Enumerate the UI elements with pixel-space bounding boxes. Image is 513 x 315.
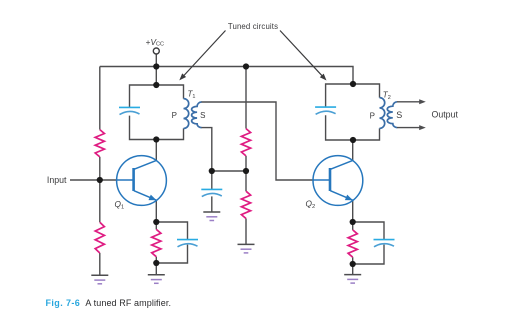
label Q2 — [306, 198, 316, 210]
label S of T1 — [200, 111, 205, 120]
svg-text:Output: Output — [432, 110, 459, 120]
resistor left lower — [95, 222, 104, 253]
capacitor tank 2 — [315, 107, 336, 114]
wire Vcc rail — [100, 67, 353, 85]
node input-base — [97, 177, 103, 183]
resistor Q2 emitter — [348, 230, 357, 257]
node Q2 emitter top — [350, 219, 356, 225]
ground left column — [91, 275, 108, 284]
wire middle column upper — [245, 67, 247, 129]
label Tuned circuits — [228, 22, 278, 31]
node rail-middle — [243, 63, 249, 69]
wire tank 2 loop — [326, 84, 380, 107]
label T2 — [383, 91, 391, 102]
capacitor Q2 emitter bypass — [374, 240, 395, 247]
ground Q1 emitter — [148, 275, 165, 284]
svg-text:+VCC: +VCC — [146, 37, 165, 47]
node tank1 bottom — [153, 136, 159, 142]
label P of T2 — [370, 112, 375, 121]
node tank2 top — [350, 81, 356, 87]
wire Q1 bypass branch — [156, 222, 187, 239]
terminal +Vcc — [153, 48, 159, 54]
wire Vcc stem — [155, 54, 157, 85]
label S of T2 — [396, 110, 402, 120]
wire T1 secondary top to Q2 base — [201, 102, 314, 180]
svg-text:P: P — [370, 112, 375, 121]
wire Q2 bypass branch — [353, 222, 384, 239]
wire Q2 collector to tank — [352, 140, 354, 160]
label +Vcc — [146, 37, 165, 47]
svg-text:P: P — [172, 111, 177, 120]
wire tank 2 loop lower — [326, 115, 380, 140]
wire Q2 emitter — [352, 200, 354, 230]
wire middle column mid — [245, 156, 247, 191]
resistor middle lower — [241, 191, 250, 218]
label T1 — [188, 90, 196, 101]
wire input lead — [70, 179, 117, 181]
wire decoupling cap stem — [211, 171, 213, 189]
svg-text:Fig. 7-6 A tuned RF amplifier: Fig. 7-6 A tuned RF amplifier. — [46, 298, 172, 308]
output arrow bottom — [397, 125, 426, 130]
leader arrow to T1 — [179, 31, 225, 81]
label Input — [47, 175, 67, 185]
ground decoupling cap — [203, 212, 220, 221]
node secondary-cap — [209, 168, 215, 174]
svg-text:Tuned circuits: Tuned circuits — [228, 22, 278, 31]
capacitor decoupling — [201, 189, 222, 196]
wire tank 1 loop lower — [130, 116, 184, 140]
svg-text:Q2: Q2 — [306, 198, 316, 210]
inductor T2 primary P — [380, 98, 385, 129]
svg-text:S: S — [396, 110, 402, 120]
leader arrow to T2 — [280, 31, 327, 81]
wire middle column lower — [245, 219, 247, 245]
inductor T1 secondary S — [192, 102, 202, 128]
wire Q2 emitter resistor to ground — [352, 257, 354, 274]
wire Q2 bypass branch lower — [353, 245, 384, 264]
wire Q1 bypass branch lower — [156, 245, 187, 263]
inductor T1 primary P — [184, 99, 189, 129]
svg-text:S: S — [200, 111, 205, 120]
resistor Q1 emitter — [152, 229, 161, 256]
resistor left upper — [95, 130, 104, 157]
svg-text:Q1: Q1 — [115, 199, 125, 211]
wire left column lower — [99, 253, 101, 275]
wire tank 1 loop — [130, 85, 184, 107]
node tank1 top — [153, 82, 159, 88]
caption Fig. 7-6 — [46, 298, 172, 308]
wire Q1 emitter — [155, 200, 157, 229]
ground Q2 emitter — [344, 275, 361, 284]
transistor Q2 — [313, 156, 363, 206]
wire decoupling cap to ground — [211, 196, 213, 212]
node Q1 emitter bottom — [153, 260, 159, 266]
capacitor Q1 emitter bypass — [177, 240, 198, 247]
label P of T1 — [172, 111, 177, 120]
transistor Q1 — [117, 156, 167, 206]
output arrow top — [397, 99, 426, 104]
wire left column upper — [99, 67, 101, 130]
wire node link — [212, 170, 246, 172]
inductor T2 secondary S — [387, 102, 397, 128]
wire left column mid — [99, 157, 101, 222]
resistor middle upper — [241, 129, 250, 156]
node rail-Vcc — [153, 63, 159, 69]
node tank2 bottom — [350, 137, 356, 143]
label Output — [432, 110, 459, 120]
node divider tap — [243, 168, 249, 174]
node Q1 emitter top — [153, 219, 159, 225]
node Q2 emitter bottom — [350, 261, 356, 267]
ground middle column — [238, 244, 255, 253]
svg-text:Input: Input — [47, 175, 67, 185]
wire Q1 emitter resistor to ground — [155, 257, 157, 275]
wire Q1 collector to tank — [155, 140, 157, 161]
svg-text:T1: T1 — [188, 90, 196, 101]
capacitor tank 1 — [119, 107, 140, 114]
label Q1 — [115, 199, 125, 211]
wire T1 secondary bottom — [201, 128, 212, 171]
